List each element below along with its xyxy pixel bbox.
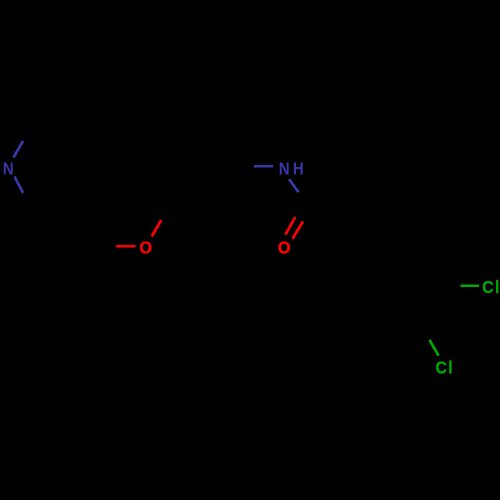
bond aryl-Cl1 half (wire) — [460, 285, 479, 288]
bond O1-aryl half (wire) — [152, 220, 162, 236]
bond N1 lower half (wire) — [15, 177, 24, 194]
svg-text:O: O — [278, 238, 291, 258]
bond aryl-Cl2 half (wire) — [430, 340, 439, 356]
svg-text:O: O — [139, 238, 152, 258]
svg-text:Cl: Cl — [436, 358, 455, 378]
svg-text:NH: NH — [279, 160, 307, 179]
bond N2-C(=O) half (wire) — [289, 179, 298, 192]
double bond C=O2 line 2 (wire) — [292, 221, 303, 238]
double bond C=O2 line 1 (wire) — [285, 217, 295, 234]
bond C-N2 half (wire) — [254, 165, 273, 168]
svg-text:N: N — [3, 159, 14, 178]
svg-text:Cl: Cl — [482, 277, 500, 297]
bond N1 upper half (wire) — [14, 141, 24, 158]
bond CH2-O1 half (wire) — [116, 245, 136, 248]
